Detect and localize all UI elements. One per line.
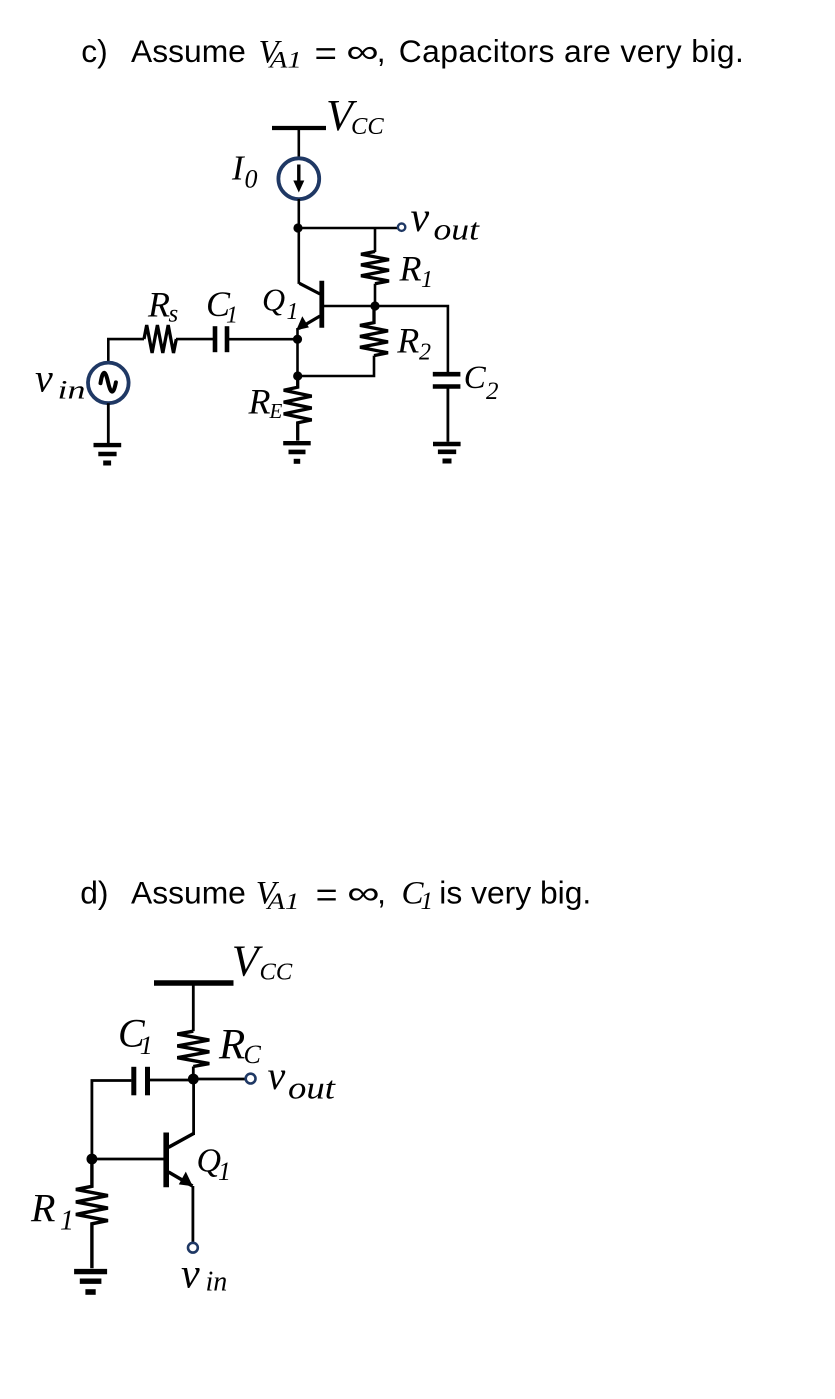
- svg-text:vout: vout: [411, 195, 481, 247]
- wire node C to R2 bottom: [298, 356, 374, 376]
- ground below R1 (d): [74, 1272, 107, 1292]
- ground below C2: [433, 444, 461, 461]
- wire Vcc to current source: [297, 128, 300, 159]
- resistor R2: [360, 306, 388, 356]
- svg-text:=: =: [315, 35, 338, 72]
- svg-text:vin: vin: [181, 1252, 227, 1298]
- wire node F to Q1 base (d): [92, 1158, 164, 1161]
- terminal vout: [398, 224, 405, 231]
- svg-text:A1: A1: [267, 48, 302, 73]
- wire Q1 collector to node E: [192, 1079, 195, 1135]
- wire C1 to node D: [229, 338, 298, 341]
- svg-text:RC: RC: [218, 1022, 262, 1070]
- transistor Q1: [296, 281, 322, 331]
- wire Vcc to RC: [192, 983, 195, 1031]
- svg-text:VCC: VCC: [232, 937, 293, 986]
- svg-text:R1: R1: [399, 249, 434, 294]
- svg-text:,: ,: [377, 875, 386, 911]
- resistor R1 (d): [76, 1159, 108, 1268]
- wire node A to vout terminal: [298, 227, 398, 230]
- node D junction: [293, 335, 302, 344]
- wire C1 left to node F: [92, 1081, 131, 1160]
- node C junction: [293, 371, 302, 380]
- svg-text:vout: vout: [268, 1053, 337, 1106]
- resistor RC: [177, 1031, 209, 1066]
- svg-text:R2: R2: [396, 321, 431, 366]
- terminal vout (d): [246, 1074, 256, 1084]
- svg-text:RE: RE: [248, 381, 283, 423]
- svg-text:=: =: [316, 876, 338, 913]
- wire vout line down to R1: [374, 228, 377, 252]
- capacitor C1: [215, 326, 227, 352]
- terminal vin (d): [188, 1243, 198, 1253]
- wire RC to node E: [192, 1067, 195, 1080]
- svg-text:A1: A1: [265, 889, 300, 914]
- svg-text:Capacitors are very big.: Capacitors are very big.: [399, 33, 744, 69]
- Vcc power rail (d): [154, 980, 234, 985]
- node A junction: [293, 223, 302, 232]
- svg-text:R1: R1: [30, 1186, 74, 1237]
- ground below RE: [283, 443, 311, 461]
- wire Q1 emitter to vin terminal: [191, 1186, 194, 1242]
- wire Rs to C1: [176, 338, 213, 341]
- wire C2 to ground: [446, 387, 449, 442]
- wire node D to node C: [296, 339, 299, 376]
- wire vin to Rs: [108, 339, 144, 363]
- svg-text:d): d): [80, 875, 108, 911]
- node E junction: [188, 1074, 199, 1085]
- svg-text:Assume: Assume: [131, 875, 246, 911]
- svg-text:I0: I0: [231, 149, 258, 194]
- resistor R1: [361, 252, 389, 284]
- svg-text:Q1: Q1: [262, 282, 299, 325]
- svg-text:Rs: Rs: [147, 284, 178, 327]
- svg-text:is very big.: is very big.: [439, 875, 591, 911]
- wire vin to ground: [107, 403, 110, 443]
- svg-text:C2: C2: [464, 360, 499, 405]
- svg-text:∞: ∞: [347, 875, 380, 911]
- capacitor C1 (d): [134, 1067, 148, 1096]
- svg-text:vin: vin: [35, 356, 86, 405]
- svg-text:Q1: Q1: [197, 1143, 232, 1187]
- capacitor C2: [433, 374, 461, 386]
- Vcc power rail: [272, 126, 326, 130]
- ground below vin: [94, 445, 122, 463]
- wire R1 to node B: [374, 284, 377, 306]
- svg-text:C1: C1: [206, 284, 238, 329]
- resistor RE: [284, 376, 312, 441]
- svg-text:Assume: Assume: [131, 33, 246, 69]
- wire node A down to Q1 collector: [297, 228, 300, 284]
- svg-text:,: ,: [377, 33, 386, 69]
- wire node B to capacitor C2: [375, 306, 448, 373]
- svg-text:C1: C1: [118, 1010, 153, 1060]
- transistor Q1 (d): [166, 1133, 193, 1188]
- wire base of Q1 to node B: [324, 305, 375, 308]
- heading c: [81, 33, 744, 72]
- wire C1 to node E: [150, 1079, 193, 1082]
- node F junction: [87, 1154, 98, 1165]
- node B junction: [370, 301, 379, 310]
- wire current source to node A: [297, 199, 300, 228]
- current source I0: [278, 158, 319, 199]
- heading d: [80, 875, 591, 915]
- svg-text:c): c): [81, 33, 108, 69]
- svg-text:∞: ∞: [346, 34, 379, 70]
- svg-text:1: 1: [421, 888, 434, 915]
- wire node E to vout terminal (d): [193, 1078, 245, 1081]
- wire Q1 emitter to node D: [296, 328, 299, 339]
- source vin: [88, 363, 129, 404]
- svg-text:VCC: VCC: [326, 91, 384, 140]
- resistor Rs: [144, 325, 176, 353]
